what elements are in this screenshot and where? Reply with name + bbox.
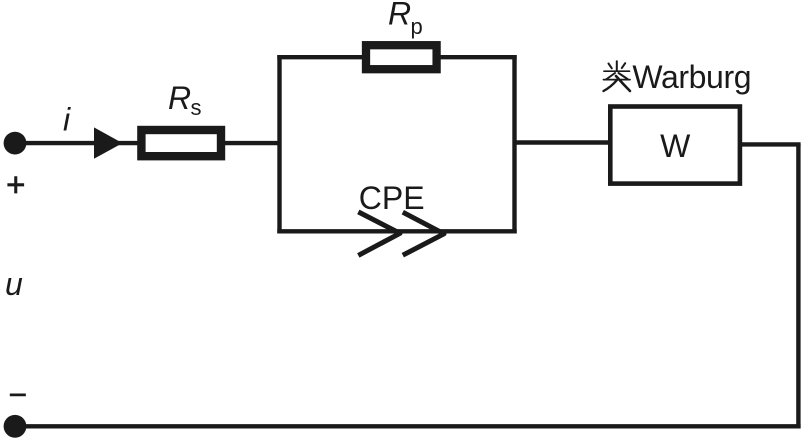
svg-text:R: R (388, 0, 411, 32)
wire: parallel box to Warburg box (515, 140, 611, 144)
wire: top-left dot to resistor Rs (15, 141, 141, 145)
wire: parallel box bottom horizontal (277, 229, 516, 233)
wire: parallel box right vertical (512, 55, 516, 234)
svg-text:p: p (411, 14, 423, 39)
wire: parallel box left vertical (277, 55, 281, 234)
wire: parallel box top horizontal (277, 55, 516, 59)
terminal negative (bottom-left dot) (4, 415, 27, 438)
svg-text:W: W (660, 128, 691, 164)
wire: Warburg box to right vertical (740, 142, 801, 146)
svg-text:+: + (6, 166, 25, 203)
svg-text:CPE: CPE (359, 180, 425, 216)
svg-text:Warburg: Warburg (632, 59, 751, 95)
svg-text:R: R (168, 80, 191, 116)
svg-text:u: u (5, 266, 23, 302)
svg-text:s: s (191, 95, 202, 120)
wire: bottom horizontal (15, 424, 801, 428)
CPE element (double chevron) (358, 212, 400, 256)
Warburg box W (610, 107, 740, 184)
svg-text:−: − (8, 377, 27, 413)
current arrow i (94, 127, 123, 158)
resistor Rp (366, 45, 437, 69)
resistor Rs (141, 130, 221, 156)
svg-text:i: i (63, 101, 71, 137)
glyph 类 (quasi) drawn as strokes (604, 61, 631, 91)
terminal positive (top-left dot) (4, 132, 27, 155)
wire: Rs to parallel box left (225, 141, 280, 145)
wire: right vertical down (796, 144, 800, 428)
